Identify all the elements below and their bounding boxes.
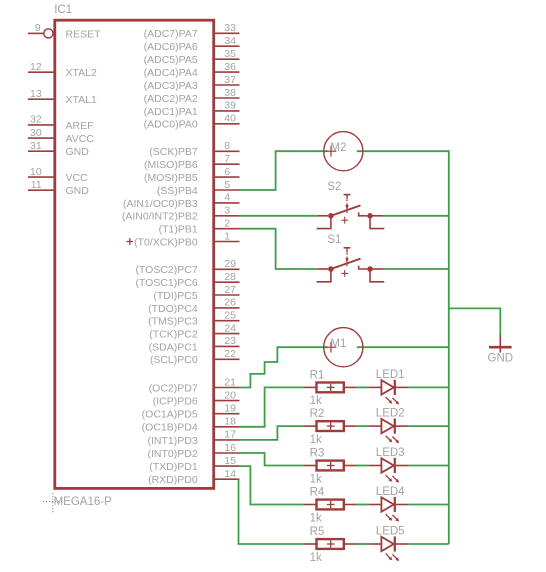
LED LED5 bbox=[369, 525, 409, 561]
pin 30 AVCC (left) bbox=[28, 127, 94, 145]
pin 14 (RXD)PD0 (right) bbox=[148, 468, 239, 486]
svg-text:AREF: AREF bbox=[66, 120, 94, 132]
pin 2 (T1)PB1 (right) bbox=[159, 218, 240, 236]
pin 20 (ICP)PD6 (right) bbox=[153, 389, 240, 407]
svg-text:(AIN0/INT2)PB2: (AIN0/INT2)PB2 bbox=[122, 211, 198, 223]
wire motor M1 to bus bbox=[357, 346, 449, 348]
svg-text:11: 11 bbox=[31, 179, 42, 191]
svg-text:R5: R5 bbox=[310, 526, 325, 538]
pin 38 (ADC2)PA2 (right) bbox=[144, 87, 240, 105]
svg-text:(MOSI)PB5: (MOSI)PB5 bbox=[144, 172, 198, 184]
wire LED2 to bus bbox=[408, 425, 448, 427]
svg-text:(INT0)PD2: (INT0)PD2 bbox=[148, 448, 198, 460]
svg-text:(SS)PB4: (SS)PB4 bbox=[157, 185, 198, 197]
svg-text:(RXD)PD0: (RXD)PD0 bbox=[148, 474, 198, 486]
svg-text:25: 25 bbox=[224, 310, 236, 322]
wire resistor R4 to LED4 bbox=[356, 504, 369, 506]
pin 28 (TOSC1)PC6 (right) bbox=[135, 271, 239, 289]
wire motor M2 to right bus bbox=[357, 150, 449, 152]
svg-text:R2: R2 bbox=[310, 408, 325, 420]
svg-text:(TCK)PC2: (TCK)PC2 bbox=[149, 329, 198, 341]
svg-text:(TXD)PD1: (TXD)PD1 bbox=[149, 461, 198, 473]
pin 8 (SCK)PB7 (right) bbox=[149, 140, 239, 158]
svg-text:(TOSC2)PC7: (TOSC2)PC7 bbox=[135, 264, 197, 276]
pin 24 (TCK)PC2 (right) bbox=[149, 322, 239, 340]
svg-text:26: 26 bbox=[224, 297, 236, 309]
wire right vertical bus bbox=[448, 150, 450, 544]
wire pin17 PD3 to resistor R2 bbox=[239, 426, 303, 440]
switch S2 pushbutton bbox=[317, 181, 385, 229]
pin 37 (ADC3)PA3 (right) bbox=[144, 74, 240, 92]
svg-text:29: 29 bbox=[224, 258, 236, 270]
svg-text:33: 33 bbox=[224, 22, 236, 34]
svg-text:(TMS)PC3: (TMS)PC3 bbox=[148, 316, 198, 328]
svg-text:LED3: LED3 bbox=[376, 447, 405, 459]
svg-text:1k: 1k bbox=[310, 552, 322, 564]
svg-text:34: 34 bbox=[224, 35, 236, 47]
pin 26 (TDO)PC4 (right) bbox=[148, 297, 239, 315]
pin 3 (AIN0/INT2)PB2 (right) bbox=[122, 205, 240, 223]
svg-text:5: 5 bbox=[224, 179, 230, 191]
svg-text:AVCC: AVCC bbox=[66, 133, 95, 145]
svg-text:7: 7 bbox=[224, 153, 230, 165]
pin 5 (SS)PB4 (right) bbox=[157, 179, 240, 197]
svg-text:(ADC2)PA2: (ADC2)PA2 bbox=[144, 93, 198, 105]
pin 17 (INT1)PD3 (right) bbox=[148, 429, 240, 447]
resistor R5 1k bbox=[303, 526, 356, 564]
svg-text:1: 1 bbox=[224, 230, 230, 242]
svg-text:R4: R4 bbox=[310, 487, 325, 499]
svg-text:(ADC4)PA4: (ADC4)PA4 bbox=[144, 67, 198, 79]
svg-text:(ADC7)PA7: (ADC7)PA7 bbox=[144, 28, 198, 40]
svg-text:R1: R1 bbox=[310, 369, 325, 381]
switch S1 pushbutton bbox=[317, 234, 385, 282]
pin 27 (TDI)PC5 (right) bbox=[153, 284, 239, 302]
wire LED1 to bus bbox=[408, 386, 448, 388]
pin 23 (SDA)PC1 (right) bbox=[149, 335, 240, 353]
pin 11 GND (left) bbox=[28, 179, 89, 197]
resistor R3 1k bbox=[303, 448, 356, 486]
svg-text:XTAL1: XTAL1 bbox=[66, 94, 97, 106]
pin 21 (OC2)PD7 (right) bbox=[149, 376, 240, 394]
svg-text:GND: GND bbox=[66, 185, 90, 197]
svg-text:12: 12 bbox=[30, 61, 42, 73]
svg-text:S2: S2 bbox=[327, 181, 341, 193]
wire pin5 PB4 to motor M2 bbox=[239, 151, 328, 190]
svg-text:28: 28 bbox=[224, 271, 236, 283]
wire switch S1 to bus bbox=[383, 268, 448, 270]
svg-text:37: 37 bbox=[224, 74, 236, 86]
svg-text:LED4: LED4 bbox=[376, 486, 405, 498]
wire pin14 PD0 to resistor R5 bbox=[239, 479, 304, 544]
svg-text:2: 2 bbox=[224, 218, 230, 230]
svg-text:(ICP)PD6: (ICP)PD6 bbox=[153, 396, 198, 408]
svg-text:(ADC3)PA3: (ADC3)PA3 bbox=[144, 80, 198, 92]
svg-text:MEGA16-P: MEGA16-P bbox=[54, 496, 112, 508]
svg-text:23: 23 bbox=[224, 335, 236, 347]
resistor R1 1k bbox=[303, 369, 356, 407]
svg-text:(OC2)PD7: (OC2)PD7 bbox=[149, 382, 198, 394]
svg-text:14: 14 bbox=[224, 468, 236, 480]
motor M2 bbox=[324, 132, 363, 171]
svg-text:LED1: LED1 bbox=[376, 369, 405, 381]
svg-text:10: 10 bbox=[30, 166, 42, 178]
svg-text:LED5: LED5 bbox=[376, 525, 405, 537]
svg-text:(INT1)PD3: (INT1)PD3 bbox=[148, 435, 198, 447]
svg-text:9: 9 bbox=[35, 22, 41, 34]
pin 15 (TXD)PD1 (right) bbox=[149, 455, 239, 473]
svg-text:M1: M1 bbox=[330, 338, 346, 350]
LED LED2 bbox=[369, 408, 409, 444]
pin 31 GND (left) bbox=[28, 140, 89, 158]
pin 25 (TMS)PC3 (right) bbox=[148, 310, 239, 328]
svg-text:39: 39 bbox=[224, 100, 236, 112]
svg-text:4: 4 bbox=[224, 192, 230, 204]
wire LED4 to bus bbox=[408, 504, 448, 506]
LED LED3 bbox=[369, 447, 409, 483]
pin 6 (MOSI)PB5 (right) bbox=[144, 166, 239, 184]
svg-text:(SDA)PC1: (SDA)PC1 bbox=[149, 341, 198, 353]
svg-text:(TDO)PC4: (TDO)PC4 bbox=[148, 303, 198, 315]
LED LED4 bbox=[369, 486, 409, 522]
svg-text:18: 18 bbox=[224, 416, 236, 428]
wire pin18 PD4 to resistor R1 bbox=[239, 387, 303, 426]
svg-text:(OC1B)PD4: (OC1B)PD4 bbox=[142, 422, 198, 434]
svg-text:(MISO)PB6: (MISO)PB6 bbox=[144, 159, 198, 171]
motor M1 bbox=[324, 328, 363, 367]
IC1 origin cross (dotted) bbox=[43, 493, 62, 514]
svg-text:S1: S1 bbox=[327, 234, 341, 246]
svg-text:GND: GND bbox=[66, 146, 90, 158]
pin 4 (AIN1/OC0)PB3 (right) bbox=[123, 192, 240, 210]
svg-text:(ADC5)PA5: (ADC5)PA5 bbox=[144, 54, 198, 66]
svg-text:8: 8 bbox=[224, 140, 230, 152]
svg-text:40: 40 bbox=[224, 113, 236, 125]
svg-text:(TDI)PC5: (TDI)PC5 bbox=[153, 290, 197, 302]
svg-text:1k: 1k bbox=[310, 512, 322, 524]
pin 12 XTAL2 (left) bbox=[28, 61, 97, 79]
wire resistor R5 to LED5 bbox=[356, 543, 369, 545]
pin 29 (TOSC2)PC7 (right) bbox=[135, 258, 239, 276]
svg-text:R3: R3 bbox=[310, 448, 325, 460]
svg-text:32: 32 bbox=[30, 114, 42, 126]
wire pin16 PD2 to resistor R3 bbox=[239, 453, 303, 466]
ground GND symbol bbox=[488, 335, 514, 364]
svg-text:21: 21 bbox=[224, 376, 236, 388]
svg-text:(ADC1)PA1: (ADC1)PA1 bbox=[144, 106, 198, 118]
wire pin15 PD1 to resistor R4 bbox=[239, 466, 303, 504]
svg-text:(ADC6)PA6: (ADC6)PA6 bbox=[144, 41, 198, 53]
svg-text:1k: 1k bbox=[310, 473, 322, 485]
resistor R2 1k bbox=[303, 408, 356, 446]
svg-text:(TOSC1)PC6: (TOSC1)PC6 bbox=[135, 277, 197, 289]
wire pin3 PB2 to switch S2 bbox=[239, 215, 318, 217]
svg-text:38: 38 bbox=[224, 87, 236, 99]
LED LED1 bbox=[369, 369, 409, 405]
wire resistor R1 to LED1 bbox=[356, 386, 369, 388]
svg-text:31: 31 bbox=[30, 140, 42, 152]
svg-text:RESET: RESET bbox=[66, 28, 102, 40]
pin 33 (ADC7)PA7 (right) bbox=[144, 22, 240, 40]
wire resistor R2 to LED2 bbox=[356, 425, 369, 427]
svg-text:17: 17 bbox=[224, 429, 236, 441]
svg-text:LED2: LED2 bbox=[376, 408, 405, 420]
wire resistor R3 to LED3 bbox=[356, 465, 369, 467]
svg-text:30: 30 bbox=[30, 127, 42, 139]
svg-text:(SCL)PC0: (SCL)PC0 bbox=[150, 354, 198, 366]
pin 34 (ADC6)PA6 (right) bbox=[144, 35, 240, 53]
pin 1 (T0/XCK)PB0 (right) bbox=[134, 230, 239, 248]
svg-text:(SCK)PB7: (SCK)PB7 bbox=[149, 146, 198, 158]
pin 35 (ADC5)PA5 (right) bbox=[144, 48, 240, 66]
wire pin2 PB1 to switch S1 bbox=[239, 229, 318, 269]
svg-text:1k: 1k bbox=[310, 395, 322, 407]
svg-text:(OC1A)PD5: (OC1A)PD5 bbox=[142, 409, 198, 421]
svg-text:(ADC0)PA0: (ADC0)PA0 bbox=[144, 119, 198, 131]
svg-text:(AIN1/OC0)PB3: (AIN1/OC0)PB3 bbox=[123, 198, 198, 210]
wire LED5 to bus bbox=[408, 543, 448, 545]
wire switch S2 to bus bbox=[383, 215, 448, 217]
svg-text:15: 15 bbox=[224, 455, 236, 467]
pin 13 XTAL1 (left) bbox=[28, 88, 97, 106]
svg-text:35: 35 bbox=[224, 48, 236, 60]
pin 22 (SCL)PC0 (right) bbox=[150, 348, 240, 366]
svg-text:(T1)PB1: (T1)PB1 bbox=[159, 224, 198, 236]
pin 16 (INT0)PD2 (right) bbox=[148, 442, 240, 460]
op-amp IC1 MEGA16-P body bbox=[55, 20, 214, 488]
svg-text:(T0/XCK)PB0: (T0/XCK)PB0 bbox=[134, 236, 198, 248]
pin 32 AREF (left) bbox=[28, 114, 94, 132]
resistor R4 1k bbox=[303, 487, 356, 525]
svg-text:16: 16 bbox=[224, 442, 236, 454]
svg-text:3: 3 bbox=[224, 205, 230, 217]
wire pin21 PD7 staircase to motor M1 bbox=[239, 347, 328, 387]
svg-text:M2: M2 bbox=[330, 142, 346, 154]
wire bus to GND symbol bbox=[449, 308, 501, 335]
svg-text:24: 24 bbox=[224, 322, 236, 334]
svg-text:20: 20 bbox=[224, 389, 236, 401]
svg-text:27: 27 bbox=[224, 284, 236, 296]
gate origin cross at PB0 bbox=[126, 238, 133, 245]
svg-text:22: 22 bbox=[224, 348, 236, 360]
svg-text:IC1: IC1 bbox=[54, 4, 72, 16]
pin 10 VCC (left) bbox=[28, 166, 88, 184]
pin 40 (ADC0)PA0 (right) bbox=[144, 113, 240, 131]
svg-text:GND: GND bbox=[488, 352, 514, 364]
svg-text:XTAL2: XTAL2 bbox=[66, 67, 97, 79]
svg-text:6: 6 bbox=[224, 166, 230, 178]
svg-text:19: 19 bbox=[224, 403, 236, 415]
pin 9 RESET (left) bbox=[28, 22, 101, 40]
svg-text:36: 36 bbox=[224, 61, 236, 73]
svg-text:13: 13 bbox=[30, 88, 42, 100]
pin 36 (ADC4)PA4 (right) bbox=[144, 61, 240, 79]
pin 39 (ADC1)PA1 (right) bbox=[144, 100, 240, 118]
pin 7 (MISO)PB6 (right) bbox=[144, 153, 239, 171]
wire LED3 to bus bbox=[408, 465, 448, 467]
pin 19 (OC1A)PD5 (right) bbox=[142, 403, 240, 421]
pin 18 (OC1B)PD4 (right) bbox=[142, 416, 240, 434]
svg-text:VCC: VCC bbox=[66, 172, 89, 184]
svg-text:1k: 1k bbox=[310, 434, 322, 446]
